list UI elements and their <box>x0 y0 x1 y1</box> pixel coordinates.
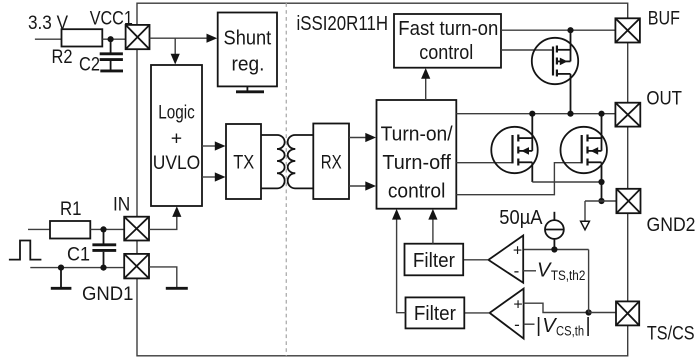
svg-text:TS/CS: TS/CS <box>647 322 695 344</box>
transistor Q2 (NMOS) <box>491 114 537 182</box>
transistor Q1 (PMOS pull-up) <box>532 30 578 114</box>
wire RX to turn-on/off upper (arrow) <box>349 133 376 142</box>
svg-text:OUT: OUT <box>646 88 682 110</box>
svg-text:control: control <box>419 42 473 64</box>
pin IN <box>124 217 149 241</box>
block Logic + UVLO <box>151 65 202 206</box>
svg-text:GND2: GND2 <box>647 214 696 236</box>
wire VCC1 node to Logic/UVLO (down arrow) <box>171 38 180 64</box>
block Filter (TS) <box>405 244 464 276</box>
pin GND2 <box>616 189 640 213</box>
pin VCC1 <box>126 25 150 49</box>
wire comp2 + input to TS/CS net <box>524 303 589 312</box>
current source I1 50uA <box>545 212 564 250</box>
junction BUF / Q1 drain <box>567 27 573 33</box>
svg-text:iSSI20R11H: iSSI20R11H <box>297 12 389 35</box>
wire comp2 output to Filter2 <box>464 312 489 314</box>
wire sources to GND2 pin <box>585 200 616 202</box>
wire turn-on/off to Q3 gate <box>456 163 581 195</box>
junction TS/CS node <box>586 309 592 315</box>
comparator U3 (CS threshold) <box>490 289 524 339</box>
svg-text:+: + <box>513 296 522 313</box>
ground marker GND2 (open triangle) <box>581 221 590 230</box>
svg-text:RX: RX <box>321 151 342 173</box>
junction Q2 drain <box>529 111 535 117</box>
wire OUT rail (turn-on/off to OUT pin) <box>456 113 615 115</box>
ground (below C2) <box>100 69 123 72</box>
svg-text:-: - <box>514 262 520 281</box>
svg-text:R1: R1 <box>60 198 82 220</box>
junction ground stub <box>58 265 64 271</box>
svg-text:+: + <box>513 243 522 260</box>
wire comp1 + input / TS net <box>523 249 588 251</box>
pin OUT <box>615 103 640 127</box>
svg-text:BUF: BUF <box>648 7 680 29</box>
svg-text:Turn-off: Turn-off <box>382 152 451 174</box>
svg-text:GND1: GND1 <box>82 283 134 305</box>
svg-text:UVLO: UVLO <box>153 152 201 174</box>
wire GND1 pin to internal ground <box>149 267 177 288</box>
junction Q1 source / OUT <box>567 111 573 117</box>
svg-text:reg.: reg. <box>232 54 265 76</box>
transformer T1 secondary winding <box>288 135 314 188</box>
block Fast turn-on control <box>394 14 501 68</box>
pin GND1 <box>124 254 149 279</box>
wire fast turn-on to BUF net <box>501 29 615 31</box>
svg-text:control: control <box>388 181 446 203</box>
capacitor C1 <box>92 229 116 267</box>
junction R1/C1 node <box>100 226 106 232</box>
wire Filter1 to turn-on/off (up arrow) <box>428 209 437 244</box>
wire IN pin to Logic (up arrow) <box>149 206 181 229</box>
svg-text:Shunt: Shunt <box>224 28 272 50</box>
IC package outline <box>137 3 628 356</box>
transformer T1 primary winding <box>261 135 285 188</box>
svg-text:C1: C1 <box>67 244 90 266</box>
svg-text:-: - <box>514 315 520 334</box>
label Shunt reg. <box>224 28 272 76</box>
input pulse symbol <box>9 241 42 260</box>
svg-text:TX: TX <box>233 151 254 173</box>
svg-text:Filter: Filter <box>414 303 456 325</box>
ground (GND1 internal) <box>166 287 188 290</box>
svg-text:IN: IN <box>113 193 130 215</box>
wire Filter2 to turn-on/off (up arrow) <box>392 209 406 313</box>
wire Q2 source to Q3 source <box>532 181 601 183</box>
wire RX to turn-on/off lower (arrow) <box>349 181 376 190</box>
svg-text:Fast turn-on: Fast turn-on <box>398 18 498 40</box>
svg-text:R2: R2 <box>52 46 73 68</box>
wire Logic to TX lower (arrow) <box>202 172 226 181</box>
block shunt regulator <box>218 13 277 87</box>
wire GND2 marker stub <box>584 201 586 221</box>
wire input to R1 <box>28 228 50 230</box>
block TX transmitter <box>226 124 261 199</box>
junction C1 bottom <box>100 265 106 271</box>
comparator U2 (TS threshold) <box>488 236 523 283</box>
capacitor C2 <box>100 39 123 69</box>
svg-text:Turn-on/: Turn-on/ <box>381 123 453 145</box>
wire TS/CS riser <box>588 250 590 313</box>
block Filter (CS) <box>406 297 465 328</box>
junction R2/C2 node <box>108 36 114 42</box>
label Logic + UVLO <box>153 102 201 174</box>
wire 3.3V supply to R2 <box>35 38 62 40</box>
wire GND1 net (lower) <box>30 267 124 269</box>
junction I1 / comp1 + input <box>551 246 557 252</box>
svg-text:Filter: Filter <box>413 250 455 272</box>
junction GND2 node <box>598 198 604 204</box>
svg-text:+: + <box>171 128 182 150</box>
wire comp1 output to Filter1 <box>463 259 488 261</box>
svg-text:C2: C2 <box>79 54 100 76</box>
resistor R1 <box>50 221 90 239</box>
transistor Q3 (NMOS) <box>561 114 607 201</box>
pin TS/CS <box>616 301 639 325</box>
svg-text:VCC1: VCC1 <box>90 8 133 30</box>
ground (input side) <box>51 268 72 289</box>
svg-text:50µA: 50µA <box>499 207 543 229</box>
junction Q3 drain <box>598 111 604 117</box>
wire comp1 - input stub <box>523 270 536 272</box>
wire TS/CS node to pin <box>589 312 616 314</box>
resistor R2 <box>62 29 103 46</box>
wire R1 to IN pin <box>90 228 124 230</box>
ground (shunt regulator) <box>236 86 264 91</box>
wire turn-on/off to Q2 gate <box>456 162 512 164</box>
label Turn-on/ Turn-off control <box>381 123 453 202</box>
block RX receiver <box>313 124 349 200</box>
wire turn-on/off to fast turn-on (up arrow) <box>421 68 430 100</box>
block Turn-on/Turn-off control <box>377 100 457 209</box>
wire R2 to VCC1 pin <box>102 38 125 40</box>
pin BUF <box>615 18 640 42</box>
wire Logic to TX upper (arrow) <box>202 141 226 150</box>
isolation barrier (dashed) <box>285 3 287 356</box>
wire fast turn-on to Q1 gate <box>501 49 553 51</box>
wire VCC1 to shunt regulator (arrow) <box>150 34 218 43</box>
svg-text:Logic: Logic <box>158 102 195 124</box>
wire comp2 - input stub <box>524 323 535 325</box>
junction sources <box>598 179 604 185</box>
label Fast turn-on control <box>398 18 498 64</box>
